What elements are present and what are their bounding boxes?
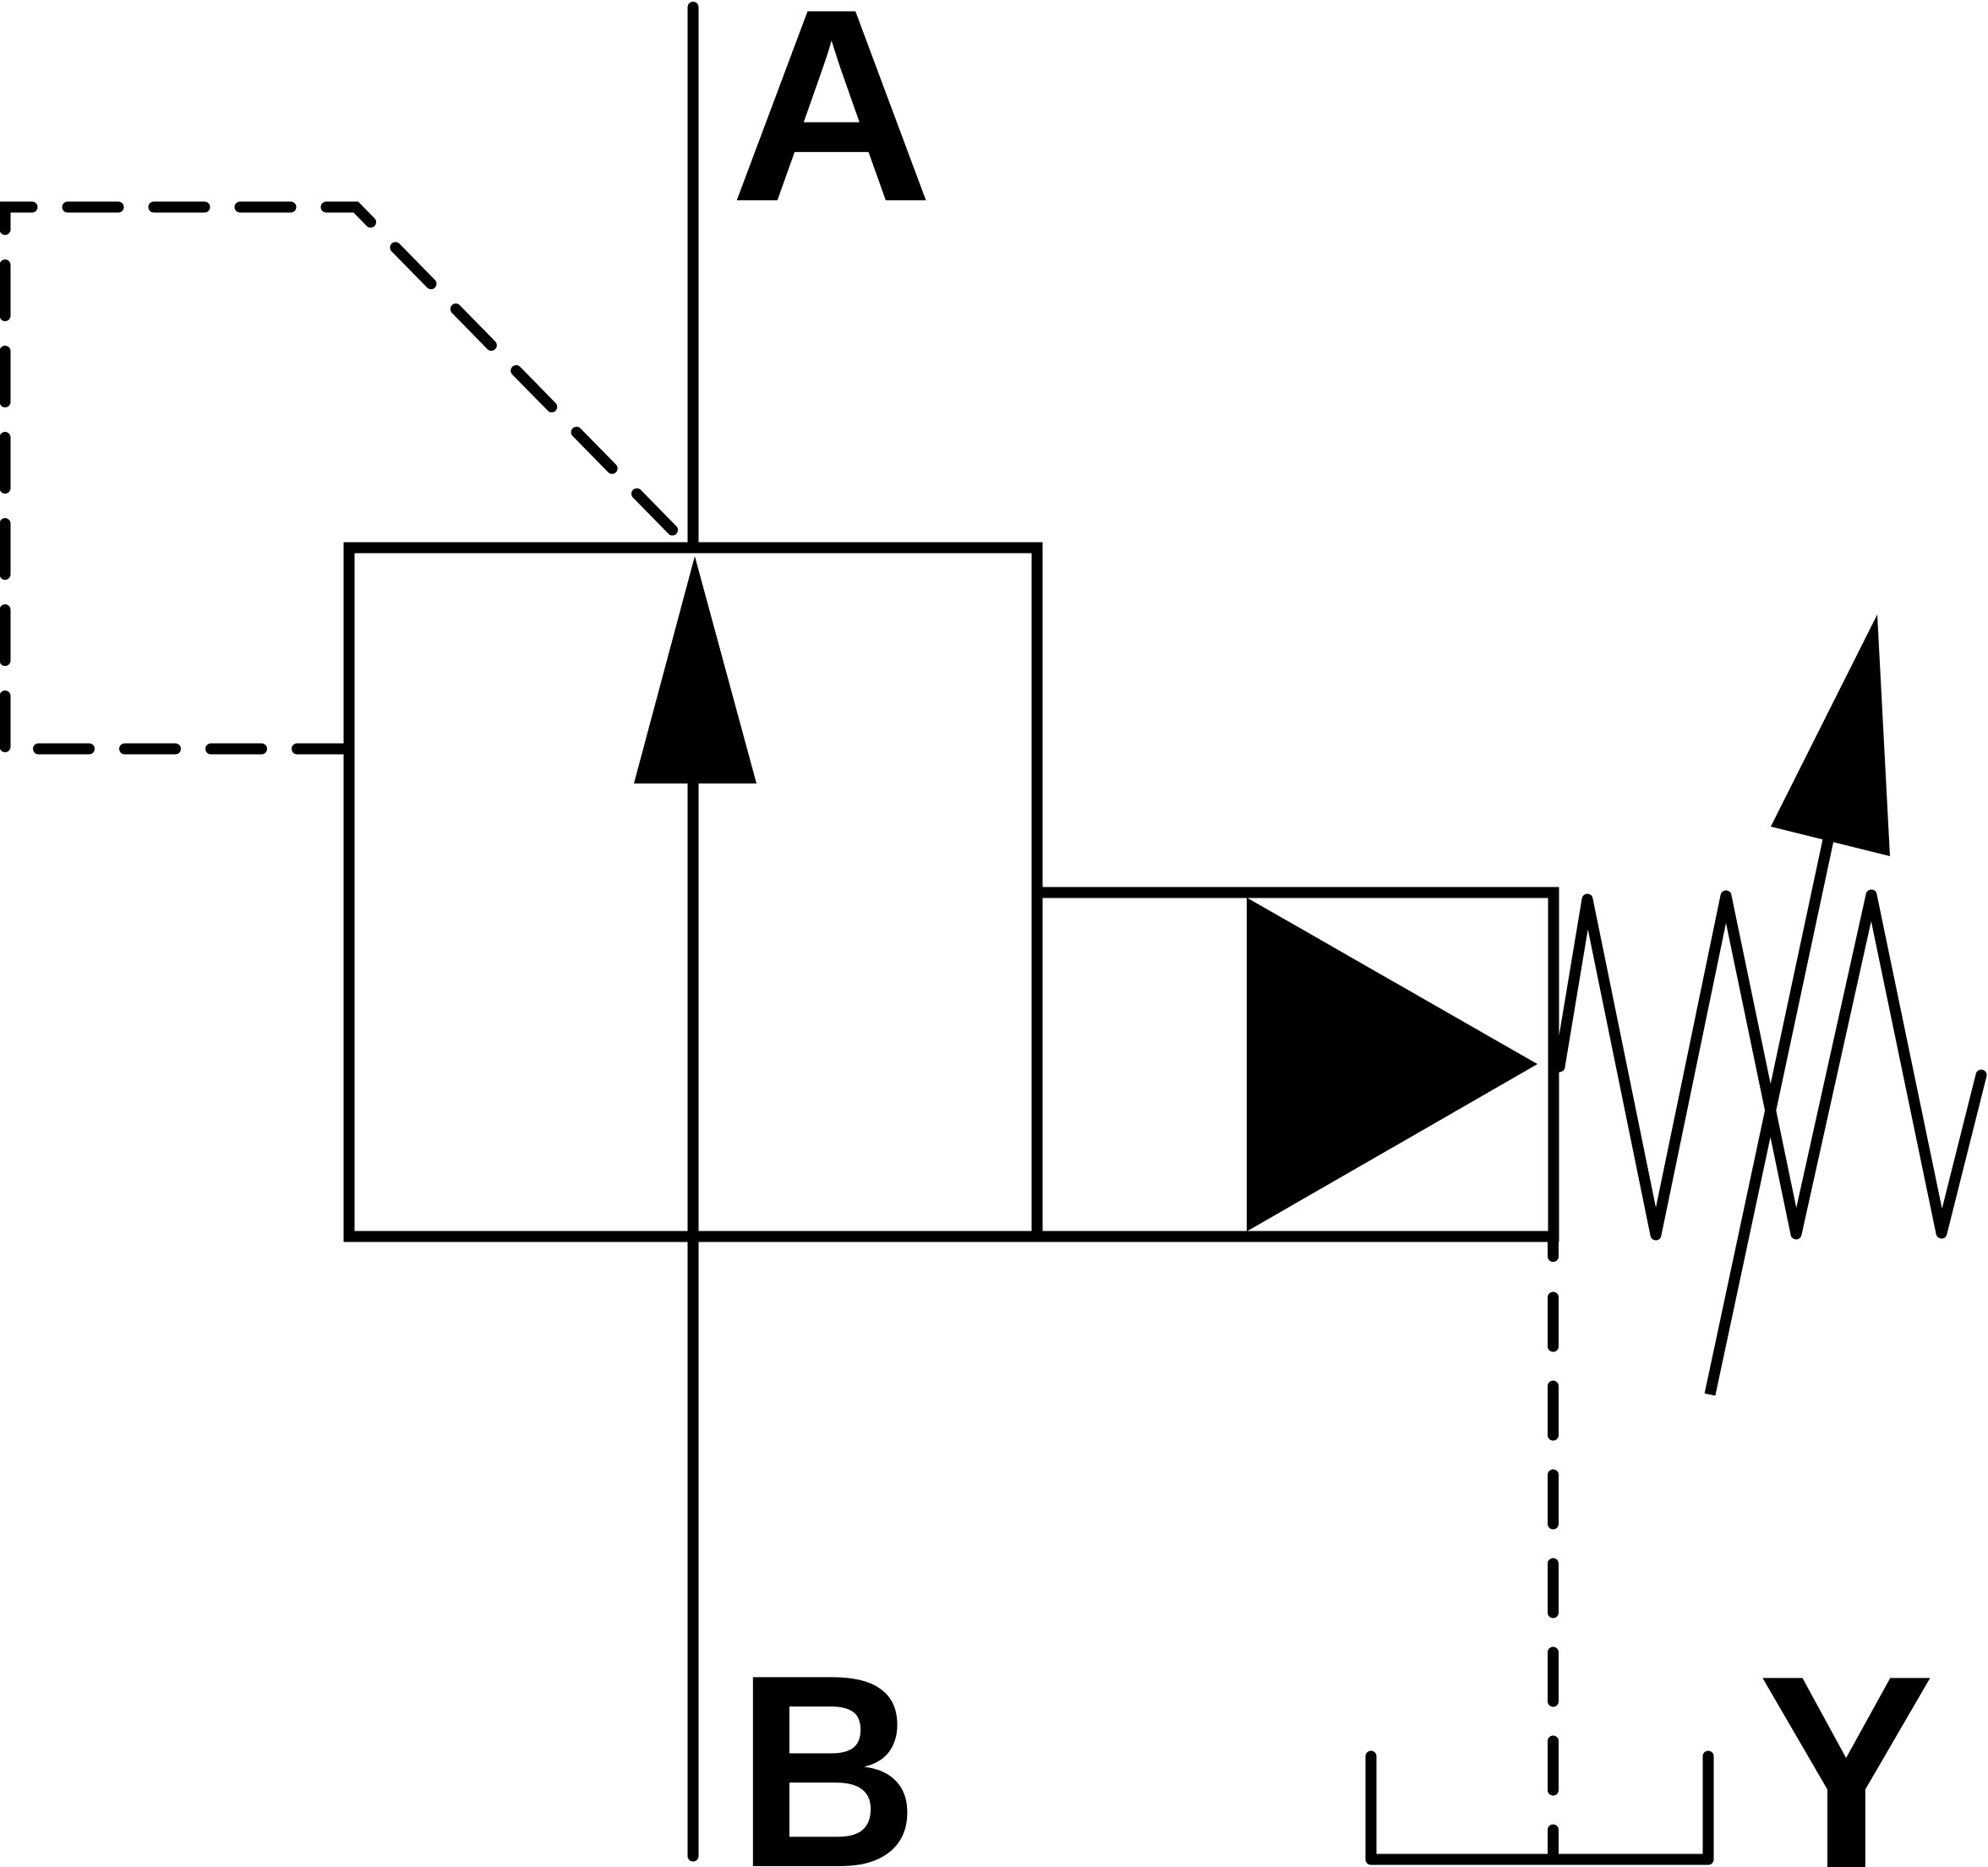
adjustment arrow shaft [1710, 693, 1860, 1395]
wire: main poppet stem and port B vertical line [688, 778, 699, 1856]
wire: port A vertical line (above valve body) [688, 8, 699, 545]
remote control dashed line (left box) [5, 207, 347, 749]
svg-text:Y: Y [1758, 1618, 1935, 1867]
drain stub below pilot body [1548, 1236, 1559, 1257]
port label A [729, 0, 933, 259]
adjustment arrow head [1771, 614, 1890, 856]
svg-text:A: A [729, 0, 933, 259]
pilot control line (dashed, top left to valve top) [0, 207, 692, 550]
port label Y [1758, 1618, 1935, 1867]
svg-text:B: B [736, 1619, 919, 1867]
tank symbol [1371, 1756, 1708, 1859]
pilot poppet cone (filled triangle) [1247, 898, 1537, 1231]
pilot valve body [1037, 893, 1554, 1236]
main poppet flow arrow (filled) [634, 556, 756, 783]
port label B [736, 1619, 919, 1867]
main valve body (envelope) [349, 548, 1037, 1236]
drain line Y (dashed vertical) [1548, 1297, 1559, 1859]
pilot spring (adjustable) [1559, 895, 1981, 1235]
